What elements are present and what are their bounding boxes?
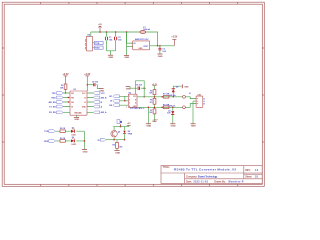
svg-text:LED1: LED1 (72, 134, 77, 136)
svg-text:485_A: 485_A (101, 111, 107, 114)
svg-text:485_A+: 485_A+ (169, 94, 177, 97)
svg-text:GND: GND (191, 126, 196, 128)
svg-text:6V8: 6V8 (167, 113, 170, 115)
svg-text:C5 104: C5 104 (136, 84, 142, 87)
svg-text:GND: GND (124, 57, 129, 59)
svg-text:1: 1 (129, 96, 130, 98)
svg-text:TITLE:: TITLE: (163, 167, 170, 169)
svg-text:120: 120 (149, 102, 152, 104)
svg-text:R4: R4 (112, 143, 114, 146)
svg-text:RX_EN: RX_EN (49, 112, 56, 114)
svg-text:RS485 To TTL Converter Module_: RS485 To TTL Converter Module_V2 (174, 168, 236, 172)
svg-text:Q4: Q4 (118, 130, 120, 133)
svg-text:485_B: 485_B (101, 96, 107, 99)
svg-text:+3.3V: +3.3V (171, 37, 178, 39)
svg-text:RO: RO (109, 96, 112, 98)
svg-text:R8 1K: R8 1K (60, 128, 66, 130)
svg-text:485_B-: 485_B- (169, 104, 176, 107)
svg-text:TXD: TXD (44, 131, 49, 133)
svg-text:TXD: TXD (52, 93, 57, 95)
svg-text:GND: GND (126, 89, 131, 91)
svg-text:D6: D6 (72, 137, 74, 139)
svg-text:500mA: 500mA (143, 28, 150, 31)
svg-text:C4 104: C4 104 (92, 81, 98, 84)
svg-text:+5V: +5V (98, 24, 102, 26)
svg-text:GND: GND (82, 106, 87, 108)
svg-text:Sheet:: Sheet: (245, 175, 252, 178)
svg-text:D5: D5 (72, 127, 74, 129)
svg-text:+3.3V: +3.3V (152, 120, 158, 122)
svg-text:D3: D3 (176, 87, 178, 89)
svg-text:GND: GND (158, 56, 163, 58)
svg-text:TXD: TXD (95, 43, 100, 45)
svg-text:GND: GND (108, 57, 113, 59)
svg-text:PWR: PWR (128, 134, 133, 136)
svg-text:2: 2 (129, 99, 130, 101)
svg-text:GND: GND (139, 48, 144, 50)
svg-text:RXD: RXD (51, 97, 56, 99)
svg-text:RXD: RXD (95, 48, 100, 50)
svg-text:RXD: RXD (44, 141, 49, 143)
svg-text:VCC: VCC (101, 93, 106, 95)
svg-text:REV:: REV: (245, 170, 251, 172)
svg-text:MAX485: MAX485 (75, 111, 82, 114)
svg-text:Date:: Date: (186, 180, 192, 183)
svg-text:2022-11-02: 2022-11-02 (193, 181, 208, 183)
svg-text:1: 1 (126, 107, 127, 109)
svg-text:R9 1K: R9 1K (60, 138, 66, 140)
svg-text:Company:: Company: (186, 176, 197, 178)
svg-text:3: 3 (129, 103, 130, 105)
svg-text:485_EN: 485_EN (48, 101, 56, 104)
svg-text:Wondere R: Wondere R (228, 181, 243, 183)
svg-text:GND: GND (146, 126, 151, 128)
svg-text:GND: GND (83, 151, 88, 153)
svg-text:TX_EN: TX_EN (49, 106, 56, 108)
svg-text:Shanxi Technology: Shanxi Technology (198, 176, 218, 178)
svg-text:GND: GND (184, 87, 189, 89)
svg-text:GND: GND (115, 152, 120, 154)
svg-text:GND: GND (171, 126, 176, 128)
svg-text:GND: GND (74, 119, 79, 121)
svg-text:AMS1117-3.3V: AMS1117-3.3V (135, 38, 149, 41)
svg-text:Drawn By:: Drawn By: (214, 181, 226, 183)
svg-text:LED2: LED2 (72, 144, 77, 146)
